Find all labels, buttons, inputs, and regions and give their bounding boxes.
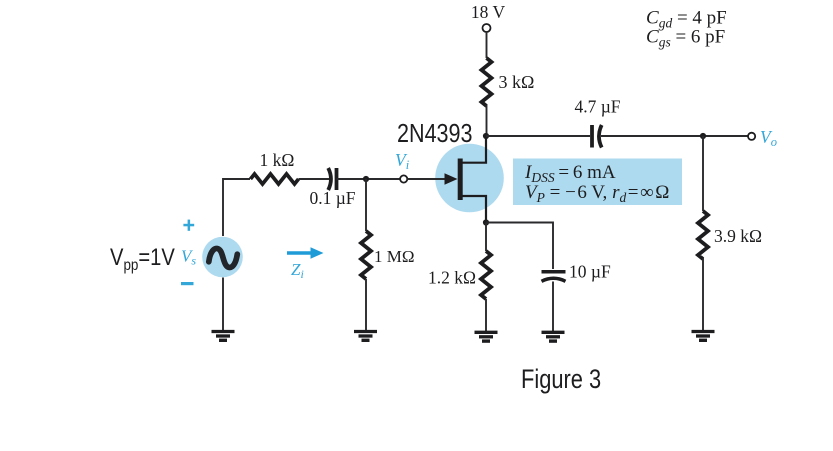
svg-text:3.9 kΩ: 3.9 kΩ [714, 226, 762, 246]
svg-text:1.2 kΩ: 1.2 kΩ [428, 268, 476, 288]
drain lead [461, 136, 486, 163]
wire: source to ground [222, 278, 224, 331]
svg-text:10 µF: 10 µF [569, 262, 611, 282]
svg-text:Vo: Vo [760, 127, 777, 149]
ground (input) [354, 332, 377, 341]
svg-text:Zi: Zi [291, 260, 304, 281]
svg-text:1 MΩ: 1 MΩ [374, 247, 415, 266]
ground (output) [692, 332, 715, 341]
wire: drain node to output cap [486, 135, 590, 137]
capacitor CS 10 uF (straight top, curved bottom plate) [542, 270, 566, 274]
caption Figure 3 [521, 365, 601, 395]
ground (CS) [542, 332, 565, 341]
svg-text:3 kΩ: 3 kΩ [499, 72, 535, 92]
resistor RS 1.2 kOhm [481, 251, 491, 299]
resistor RG 1 MOhm [361, 231, 371, 279]
parameter highlight box [513, 159, 682, 206]
label Vpp=1V [110, 243, 175, 274]
wire: supply to RD [486, 32, 488, 58]
junction dot output node [700, 133, 706, 139]
resistor RL 3.9 kOhm [698, 211, 708, 259]
supply terminal 18 V [483, 24, 491, 32]
source lead [461, 196, 486, 223]
wire: resistor to capacitor [299, 178, 330, 180]
wire: source node to bypass cap [486, 223, 553, 270]
JFET highlight circle [435, 144, 504, 213]
junction dot drain node [483, 133, 489, 139]
svg-text:VP = − 6 V, rd = ∞ Ω: VP = − 6 V, rd = ∞ Ω [525, 182, 669, 205]
wire: RL to ground [702, 258, 704, 330]
svg-text:2N4393: 2N4393 [397, 119, 473, 148]
node Vi open terminal [400, 175, 407, 182]
node Vo open terminal [748, 133, 755, 140]
svg-text:1 kΩ: 1 kΩ [260, 150, 295, 170]
resistor RD 3 kOhm [482, 58, 492, 106]
svg-text:Cgs = 6 pF: Cgs = 6 pF [646, 27, 725, 50]
label + [183, 220, 194, 231]
transistor Q 2N4393 JFET [445, 136, 487, 223]
ground (source) [212, 332, 235, 341]
wire: input top line [223, 179, 250, 236]
channel bar [458, 159, 463, 201]
capacitor CC 4.7 uF (straight left, curved right plate) [590, 125, 594, 148]
svg-text:Vs: Vs [181, 247, 196, 268]
wire: capacitor to Vi node [337, 178, 401, 180]
capacitor C 0.1 uF (curved left plate, straight right plate) [328, 168, 331, 190]
junction dot source node [483, 219, 489, 225]
svg-text:18 V: 18 V [471, 2, 506, 22]
wire: RS to ground [485, 299, 487, 331]
svg-text:Vpp=1V: Vpp=1V [110, 243, 175, 274]
ground (RS) [475, 332, 498, 341]
wire: source node to RS [485, 223, 487, 252]
gate arrow [445, 173, 458, 185]
wire: cap to output node [601, 135, 748, 137]
source Vs sine symbol [209, 248, 238, 267]
svg-text:Figure 3: Figure 3 [521, 365, 601, 395]
label minus [181, 282, 194, 285]
wire: down to 1 MOhm [365, 179, 367, 231]
impedance arrow Zi [287, 251, 314, 254]
wire: CS to ground [552, 282, 554, 332]
svg-text:4.7 µF: 4.7 µF [574, 97, 620, 117]
svg-text:0.1 µF: 0.1 µF [309, 188, 355, 208]
wire: Vi to gate [407, 178, 446, 180]
svg-text:Vi: Vi [395, 150, 410, 172]
junction dot at 1 MOhm tap [363, 176, 369, 182]
wire: RD to drain node [486, 105, 488, 136]
wire: output node down to RL [702, 136, 704, 211]
source highlight circle [202, 237, 243, 278]
resistor R 1 kOhm [251, 174, 299, 184]
wire: 1 MOhm to ground [365, 279, 367, 330]
label 2N4393 [397, 119, 473, 148]
